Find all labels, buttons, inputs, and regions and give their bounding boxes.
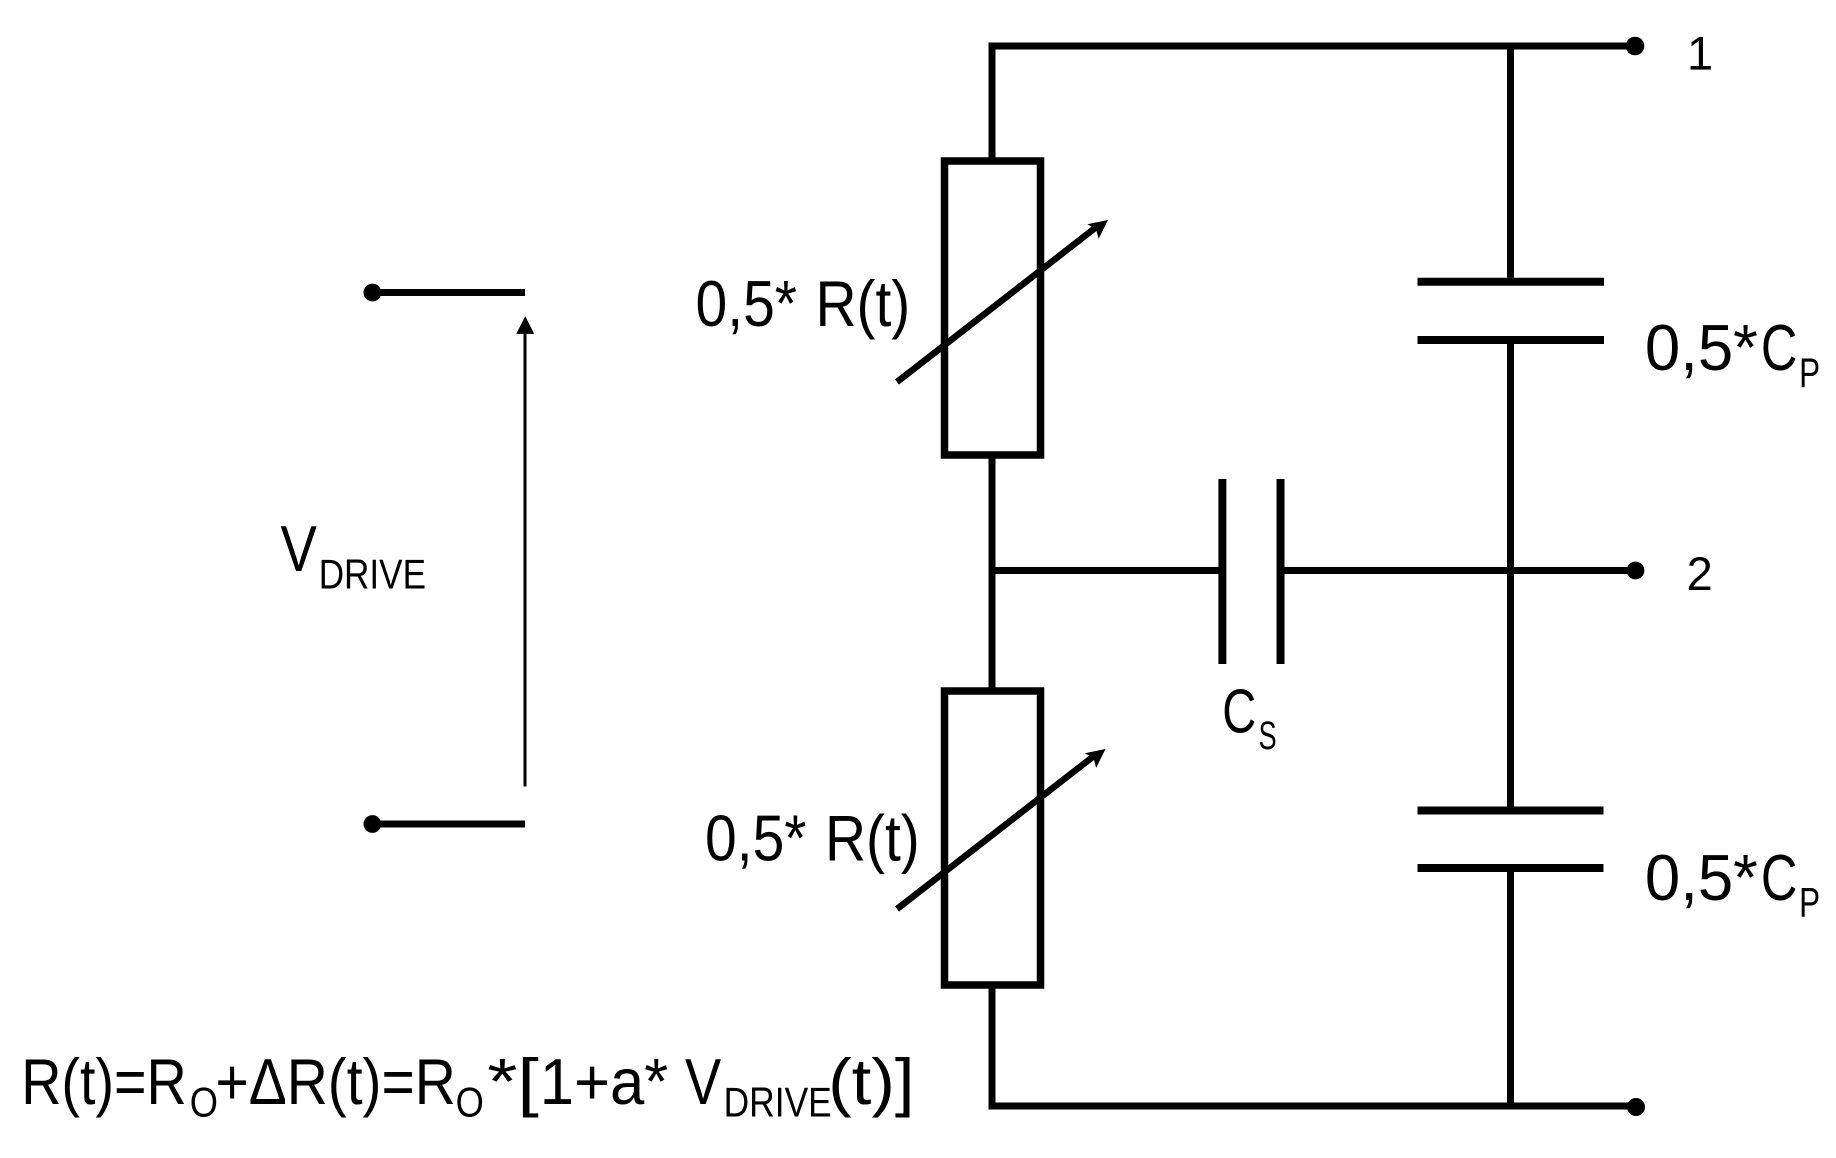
capacitor Cs label [1222, 678, 1276, 759]
arrow through resistor R1 [897, 227, 1096, 382]
svg-text:0,5*: 0,5* [1645, 311, 1758, 384]
terminal bottom of Vdrive [364, 815, 526, 833]
wire left vertical between resistors [989, 452, 996, 694]
svg-text:S: S [1259, 714, 1277, 758]
wire top horizontal from left branch to node 1 [989, 43, 1636, 50]
svg-text:C: C [1761, 841, 1798, 914]
capacitor Cp-top label 0,5*Cp [1645, 311, 1820, 396]
bottom node [1627, 1098, 1645, 1116]
node 1 [1626, 37, 1645, 56]
resistor R2 (variable, 0,5*R(t) lower) [945, 691, 1041, 985]
svg-text:0,5*: 0,5* [1645, 841, 1758, 914]
svg-text:P: P [1799, 349, 1820, 396]
svg-text:C: C [1761, 311, 1798, 384]
Vdrive label [281, 512, 427, 598]
capacitor Cp-bottom label 0,5*Cp [1645, 841, 1820, 926]
svg-text:0,5*: 0,5* [705, 802, 807, 875]
capacitor Cs right plate [1277, 479, 1285, 664]
svg-text:DRIVE: DRIVE [724, 1079, 832, 1126]
svg-text:O: O [456, 1079, 484, 1126]
capacitor Cp-top plate 1 [1418, 278, 1605, 286]
node 2 [1627, 562, 1645, 580]
svg-text:C: C [1222, 678, 1256, 747]
capacitor Cp-bottom plate 1 [1418, 807, 1604, 815]
svg-text:1+a*: 1+a* [540, 1045, 669, 1118]
arrow through resistor R2 [897, 756, 1094, 909]
capacitor Cp-bottom plate 2 [1418, 864, 1604, 872]
svg-text:2: 2 [1687, 547, 1713, 600]
wire left vertical bottom [989, 982, 996, 1106]
svg-text:R(t)=R: R(t)=R [21, 1045, 187, 1118]
resistor R1 (variable, 0,5*R(t) upper) [945, 161, 1041, 455]
wire node 2 horizontal right of Cs to node 2 [1285, 567, 1636, 574]
wire left vertical top into resistor R1 [989, 43, 996, 164]
svg-text:0,5*: 0,5* [696, 267, 798, 340]
wire bottom horizontal to bottom node [989, 1103, 1637, 1110]
svg-text:P: P [1799, 879, 1820, 926]
svg-text:DRIVE: DRIVE [319, 551, 426, 598]
capacitor Cp-top plate 2 [1418, 336, 1605, 344]
svg-text:R(t): R(t) [816, 267, 911, 340]
wire right vertical bottom segment [1507, 872, 1514, 1106]
svg-text:V: V [281, 512, 318, 585]
svg-text:(t)]: (t)] [828, 1045, 915, 1118]
svg-text:+ΔR(t)=R: +ΔR(t)=R [216, 1045, 456, 1118]
wire right vertical top segment [1507, 46, 1514, 278]
svg-text:V: V [685, 1045, 722, 1118]
terminal top of Vdrive [364, 284, 526, 302]
svg-text:*[: *[ [487, 1045, 539, 1118]
capacitor Cs left plate [1218, 479, 1226, 664]
wire right vertical middle segment [1507, 344, 1514, 807]
wire node 2 horizontal left of Cs [992, 567, 1219, 574]
svg-text:1: 1 [1687, 27, 1713, 80]
formula R(t)=Ro+dR(t)=Ro*[1+a*Vdrive(t)] [21, 1045, 914, 1126]
svg-text:O: O [190, 1079, 218, 1126]
svg-text:R(t): R(t) [825, 802, 920, 875]
Vdrive arrow [516, 316, 534, 786]
